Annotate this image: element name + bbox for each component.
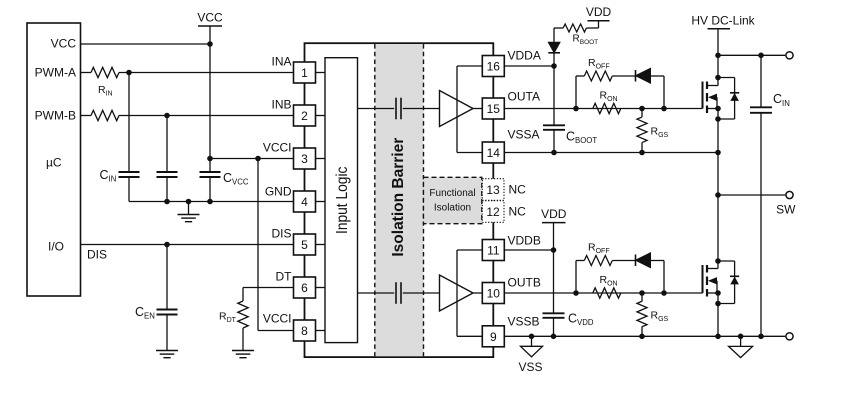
label OUTA [508, 89, 540, 103]
wire VSSA [504, 152, 718, 154]
label NC 12 [509, 205, 527, 219]
label DT [276, 270, 293, 284]
node GND CVCC [207, 199, 213, 205]
pin 6 [294, 277, 326, 298]
svg-text:PWM-B: PWM-B [35, 109, 76, 123]
pin 13 (NC) [482, 179, 504, 201]
wire VCCI to pin 3 [210, 158, 294, 160]
power supply HV DC-Link [691, 13, 755, 55]
svg-text:VCCI: VCCI [263, 141, 292, 155]
node HV rail [715, 53, 721, 59]
isolation barrier label [390, 138, 407, 257]
ground VSS [518, 336, 542, 374]
node SW junction [715, 192, 721, 198]
wire VDDB internal rail [457, 250, 482, 336]
label VCCI pin3 [263, 141, 292, 155]
ground GND symbol [178, 202, 200, 222]
pin 11 [482, 240, 504, 261]
pin 14 [482, 142, 504, 163]
svg-text:VSSA: VSSA [508, 127, 540, 141]
ground power [729, 334, 753, 358]
node GND stem [186, 199, 192, 205]
IC outline [305, 43, 494, 357]
svg-text:13: 13 [486, 183, 500, 197]
label VSSA [508, 127, 540, 141]
capacitor CVDD [543, 250, 594, 336]
svg-text:NC: NC [509, 183, 527, 197]
node VDDB junction [551, 247, 557, 253]
node VSSA CBOOT [551, 150, 557, 156]
node VSSA rail [715, 150, 721, 156]
node PWM-A / CIN junction [126, 70, 132, 76]
pin 9 [482, 326, 504, 347]
resistor ROFF A [576, 57, 636, 109]
wire VCC rail vertical [209, 44, 211, 159]
transistor Q2 low-side MOSFET [703, 258, 740, 306]
node CIN bottom [758, 334, 764, 340]
wire PWM-B to pin 2 INB [119, 115, 294, 117]
node OUTB diode branch [661, 290, 667, 296]
wire OUTA [504, 108, 702, 110]
capacitor CIN dclink [750, 55, 790, 336]
wire DIS from uC I/O to pin 5 [81, 245, 294, 262]
resistor RBOOT [554, 24, 599, 46]
resistor RON A [593, 90, 621, 114]
wire GND rail to pin 4 [129, 201, 294, 203]
svg-text:VSSB: VSSB [508, 315, 540, 329]
svg-text:INA: INA [271, 55, 291, 69]
resistor RGS A [637, 109, 669, 153]
svg-text:5: 5 [301, 238, 308, 252]
power supply VDD bootstrap [586, 5, 612, 28]
capacitor C2 (unlabeled) [157, 116, 178, 202]
svg-text:GND: GND [265, 185, 292, 199]
diode DOFF A [636, 68, 665, 108]
node VSS gnd stub [529, 334, 535, 340]
node OUTA Rgs branch [639, 106, 645, 112]
svg-text:1: 1 [301, 66, 308, 80]
power supply VDD low side [541, 207, 567, 250]
svg-text:16: 16 [487, 60, 501, 74]
transistor Q1 high-side MOSFET [703, 55, 740, 122]
label VCCI pin8 [263, 312, 292, 326]
label VSSB [508, 315, 540, 329]
capacitor barrier B [394, 282, 403, 304]
wire PWM-A to pin 1 INA [119, 72, 294, 74]
capacitor barrier A [394, 98, 403, 120]
svg-text:Isolation Barrier: Isolation Barrier [390, 138, 407, 257]
wire VCCI branch to pin 8 [258, 159, 294, 331]
svg-text:VDDA: VDDA [508, 48, 541, 62]
wire VCC from uC to rail [81, 43, 210, 45]
node OUTA diode branch [661, 106, 667, 112]
input logic block [325, 58, 358, 343]
isolation barrier shaded band [375, 44, 424, 356]
svg-text:6: 6 [301, 281, 308, 295]
label INB [271, 98, 291, 112]
svg-text:VCC: VCC [51, 37, 77, 51]
svg-text:OUTA: OUTA [508, 89, 540, 103]
wire OUTB [504, 292, 702, 294]
svg-text:8: 8 [301, 324, 308, 338]
svg-text:11: 11 [487, 244, 500, 258]
svg-text:Input Logic: Input Logic [334, 167, 351, 234]
svg-text:DIS: DIS [87, 248, 107, 262]
capacitor CIN [100, 73, 140, 202]
wire channel B with barrier capacitor [358, 292, 440, 294]
wire rail to SW [717, 119, 719, 195]
pin 2 [294, 105, 326, 126]
node CIN top [758, 53, 764, 59]
pin 1 [294, 62, 326, 83]
resistor ROFF B [576, 242, 636, 294]
svg-text:VCC: VCC [197, 11, 223, 25]
node OUTB Rgs branch [639, 290, 645, 296]
wire VDDA [504, 65, 554, 67]
svg-text:3: 3 [301, 152, 308, 166]
node OUTB Roff branch [573, 290, 579, 296]
svg-text:10: 10 [487, 287, 501, 301]
node GND cap2 [164, 199, 170, 205]
svg-text:VSS: VSS [518, 360, 542, 374]
svg-text:OUTB: OUTB [508, 275, 541, 289]
svg-text:9: 9 [490, 330, 497, 344]
svg-text:INB: INB [271, 98, 291, 112]
pin 3 [294, 148, 326, 169]
label INA [271, 55, 291, 69]
svg-text:µC: µC [46, 156, 62, 170]
svg-text:12: 12 [486, 205, 500, 219]
terminal bottom [786, 333, 793, 340]
svg-text:2: 2 [301, 109, 308, 123]
pin 12 (NC) [482, 201, 504, 223]
svg-text:Functional: Functional [429, 188, 475, 199]
op-amp buffer B [440, 275, 483, 311]
label OUTB [508, 275, 541, 289]
node CVDD bottom [551, 334, 557, 340]
label VDDB [508, 233, 541, 247]
label VDDA [508, 48, 541, 62]
resistor RDT [219, 301, 248, 328]
resistor RGS B [637, 293, 669, 336]
node VCCI rail junction [207, 156, 213, 162]
resistor RON B [593, 274, 621, 298]
node PWM-B / cap junction [164, 113, 170, 119]
node VDDA junction [551, 63, 557, 69]
node VSSA RGS [639, 150, 645, 156]
svg-text:HV DC-Link: HV DC-Link [691, 13, 755, 27]
svg-text:DIS: DIS [271, 227, 291, 241]
wire PWM-A from uC [81, 72, 91, 74]
microcontroller block uC [27, 23, 81, 296]
pin 16 [482, 56, 504, 77]
svg-text:VCCI: VCCI [263, 312, 292, 326]
node DIS / CEN junction [164, 242, 170, 248]
pin 15 [482, 98, 504, 119]
capacitor CVCC [200, 159, 249, 202]
wire HV top line [718, 54, 785, 56]
wire PWM-B from uC [81, 115, 91, 117]
ground CEN [156, 351, 178, 358]
wire rail SW to Q2 [717, 195, 719, 261]
svg-text:Isolation: Isolation [434, 203, 471, 214]
svg-text:SW: SW [776, 203, 796, 217]
wire RDT to ground [242, 328, 244, 351]
functional isolation region [424, 177, 482, 223]
wire Q2 source to rail [717, 304, 719, 337]
node rail bottom [715, 334, 721, 340]
pin 8 [294, 320, 326, 341]
capacitor CBOOT [543, 66, 597, 153]
svg-text:VDD: VDD [586, 5, 612, 19]
resistor RIN [91, 67, 119, 97]
terminal HV+ [786, 52, 793, 59]
svg-text:14: 14 [487, 146, 501, 160]
pin 10 [482, 283, 504, 304]
diode DOFF B [636, 253, 665, 293]
wire VDDB [504, 249, 553, 251]
wire VSSB bottom rail [504, 335, 785, 337]
svg-text:DT: DT [276, 270, 293, 284]
node OUTA Roff branch [573, 106, 579, 112]
wire channel A with barrier capacitor [358, 108, 440, 110]
svg-text:VDDB: VDDB [508, 233, 541, 247]
pin 5 [294, 234, 326, 255]
label NC 13 [509, 183, 527, 197]
op-amp buffer A [440, 91, 483, 127]
svg-text:I/O: I/O [48, 240, 64, 254]
wire VDDA internal rail [457, 66, 482, 153]
node RGS B bottom [639, 334, 645, 340]
svg-text:15: 15 [487, 102, 501, 116]
label DIS pin5 [271, 227, 291, 241]
power supply VCC [197, 11, 223, 44]
wire SW line [718, 194, 785, 196]
label GND [265, 185, 292, 199]
svg-text:4: 4 [301, 195, 308, 209]
wire DT from pin 6 [243, 288, 294, 302]
diode bootstrap DBOOT [548, 28, 560, 66]
node VCCI / pin8 branch [255, 156, 261, 162]
svg-text:PWM-A: PWM-A [35, 66, 76, 80]
terminal SW [776, 191, 796, 216]
ground RDT [232, 351, 254, 358]
svg-text:NC: NC [509, 205, 527, 219]
node VCC rail junction [207, 41, 213, 47]
resistor RIN-B (unlabeled) [91, 110, 119, 120]
pin 4 [294, 191, 326, 212]
capacitor CEN [135, 245, 178, 351]
svg-text:VDD: VDD [541, 207, 567, 221]
